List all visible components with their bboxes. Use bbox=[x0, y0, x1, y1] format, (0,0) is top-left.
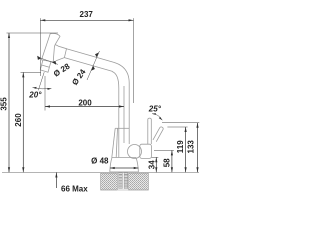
handle boss on body bbox=[128, 144, 152, 158]
dim 237 bbox=[40, 10, 133, 21]
svg-text:133: 133 bbox=[186, 140, 195, 154]
dim 34 bbox=[147, 157, 157, 172]
spout tube from head to bend bbox=[64, 49, 129, 158]
dim 66 Max bbox=[55, 173, 88, 194]
handle lever vertical bbox=[148, 118, 152, 144]
bend into riser bbox=[114, 62, 130, 144]
angle 20deg: axis ray bbox=[38, 72, 44, 90]
dia 24 dim bbox=[70, 51, 99, 87]
svg-text:34: 34 bbox=[147, 160, 156, 169]
faucet head grip cylinder (tilted 20deg) bbox=[40, 33, 66, 72]
svg-text:237: 237 bbox=[80, 10, 94, 19]
svg-text:58: 58 bbox=[162, 158, 171, 167]
base flange bbox=[112, 157, 136, 159]
svg-text:200: 200 bbox=[78, 98, 92, 107]
dim 200 bbox=[45, 98, 124, 107]
faucet shank through counter (threaded columns) bbox=[101, 173, 149, 190]
dim 58 bbox=[162, 150, 173, 172]
dim 355 bbox=[0, 33, 10, 172]
dim 119 bbox=[176, 127, 187, 172]
dia 48 dim bbox=[91, 157, 138, 170]
svg-text:119: 119 bbox=[176, 140, 185, 153]
dim 133 bbox=[186, 123, 198, 173]
svg-text:355: 355 bbox=[0, 97, 8, 111]
tube socket facet bbox=[55, 45, 66, 61]
ext line right vertical (237) bbox=[133, 18, 135, 103]
svg-text:Ø 48: Ø 48 bbox=[91, 157, 109, 166]
svg-text:66 Max: 66 Max bbox=[61, 184, 88, 193]
ext line outlet level bbox=[21, 71, 42, 73]
faucet body bbox=[110, 128, 139, 172]
ext line left vertical (head left / 237) bbox=[39, 18, 41, 76]
dim 260 bbox=[14, 72, 25, 172]
handle base block bbox=[140, 144, 152, 158]
svg-text:25°: 25° bbox=[148, 105, 162, 114]
handle lever ghost tilted 25deg bbox=[153, 127, 163, 142]
aerator outlet bbox=[40, 60, 51, 72]
angle 25deg arc bbox=[152, 114, 162, 121]
ext line faucet top bbox=[7, 32, 59, 34]
ext line outlet axis vertical bbox=[44, 76, 46, 111]
svg-text:260: 260 bbox=[14, 113, 23, 127]
counter surface line bbox=[2, 171, 199, 173]
svg-text:20°: 20° bbox=[28, 91, 42, 100]
countertop hatch left block bbox=[101, 173, 118, 190]
dia 28 dim bbox=[37, 56, 72, 79]
countertop hatch right block bbox=[129, 173, 149, 190]
angle 20deg arc bbox=[33, 88, 52, 89]
